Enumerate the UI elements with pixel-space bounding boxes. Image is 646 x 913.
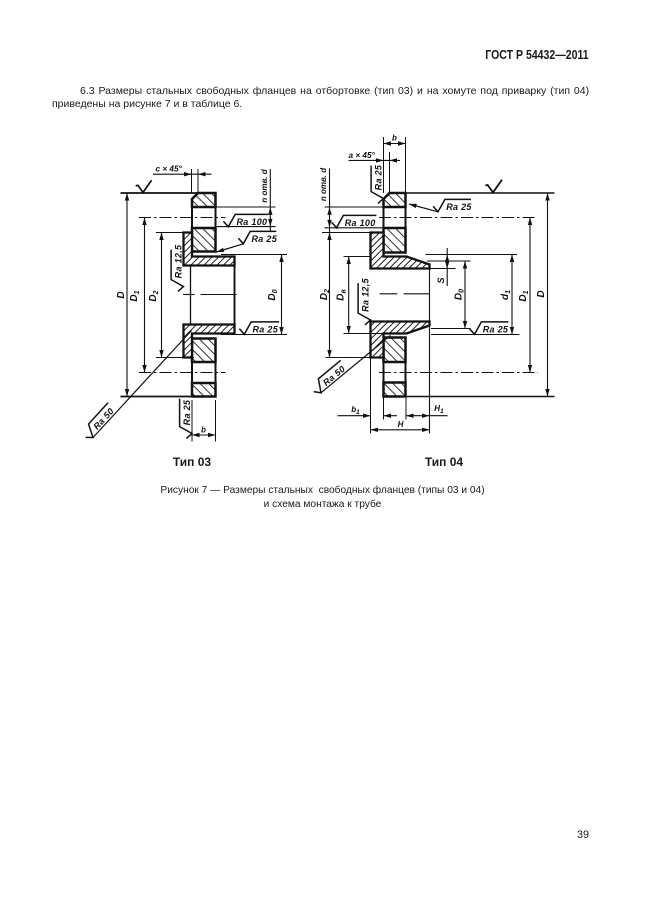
T04 ring left edge lower — [383, 334, 385, 397]
T04 D0 bottom extension — [431, 328, 471, 330]
T04 roughness Ra 100 — [332, 215, 377, 228]
T04 extension line weld end down — [429, 265, 431, 434]
svg-text:Ra 50: Ra 50 — [321, 364, 347, 388]
T03 ring upper section with chamfer — [192, 193, 216, 207]
svg-text:D1: D1 — [518, 290, 530, 301]
T03 roughness Ra 12.5 rotated — [171, 244, 184, 291]
svg-text:a × 45°: a × 45° — [349, 151, 376, 160]
paragraph 6.3 line 2 — [52, 98, 242, 110]
running header GOST number — [486, 48, 589, 62]
T03 ring left edge lower — [191, 325, 193, 397]
T03 bolt hole diameter dimension n otv d — [269, 169, 271, 232]
T03 flare bore corner line — [190, 266, 192, 324]
T04 extension line ring left face down — [383, 397, 385, 420]
T04 dimension D1 bolt circle — [529, 218, 531, 373]
T03 ring left edge upper — [191, 199, 193, 266]
svg-text:D2: D2 — [148, 290, 160, 301]
T04 bolt hole top extension — [325, 206, 384, 208]
T03 collar flare upper half — [184, 233, 235, 266]
paragraph 6.3 line 1 — [80, 85, 589, 97]
figure caption line 1 — [160, 485, 484, 496]
T04 ring right edge lower — [405, 338, 407, 397]
T04 machining symbol on top line — [485, 180, 502, 193]
svg-text:Ra 100: Ra 100 — [345, 218, 376, 228]
T03 lower bolt hole axis — [139, 372, 226, 374]
T04 Dv bottom extension — [344, 333, 384, 335]
T03 bottom rim extension line — [121, 396, 216, 398]
svg-text:d1: d1 — [500, 290, 512, 300]
svg-text:b: b — [392, 134, 397, 143]
T03 dimension D2 — [161, 233, 163, 358]
T04 roughness Ra 25 left rotated — [371, 164, 384, 203]
page number — [577, 829, 589, 841]
T04 roughness Ra 25 upper right with leader — [433, 199, 472, 212]
T04 d1 top extension — [426, 254, 518, 256]
svg-text:b1: b1 — [351, 405, 360, 416]
T04 ring left edge upper — [383, 199, 385, 257]
T04 ring right edge upper — [405, 193, 407, 253]
T04 roughness Ra 12.5 rotated — [358, 277, 371, 324]
T03 roughness Ra 25 upper with leader — [238, 231, 277, 244]
svg-text:Ra 50: Ra 50 — [91, 406, 116, 432]
T03 ring right edge upper — [215, 193, 217, 252]
T03 chamfer dimension c x 45 — [153, 173, 212, 175]
T04 weld collar lower half — [371, 322, 430, 358]
T03 top rim extension line — [121, 192, 216, 194]
T04 top rim extension line — [406, 192, 555, 194]
T03 roughness Ra 100 — [223, 214, 268, 227]
Type 04 flange drawing group — [309, 134, 554, 434]
T04 D2 bottom extension — [326, 357, 371, 359]
svg-text:D1: D1 — [129, 290, 141, 301]
svg-text:c × 45°: c × 45° — [156, 165, 183, 174]
T04 ring lower section — [384, 383, 406, 397]
T03 D2 bottom extension — [156, 357, 194, 359]
svg-text:Ra 12,5: Ra 12,5 — [174, 244, 184, 278]
T03 thickness dimension b — [191, 400, 193, 442]
T04 upper bolt hole axis — [379, 217, 537, 219]
T03 ring right edge lower — [215, 339, 217, 397]
T04 roughness Ra 50 with long leader — [321, 335, 391, 393]
svg-text:Ra 12,5: Ra 12,5 — [361, 277, 371, 311]
T03 machining symbol on top line — [136, 180, 152, 192]
T03 bolt hole top extension — [216, 206, 276, 208]
svg-text:Ra 25: Ra 25 — [253, 325, 279, 335]
T04 ring upper-inner section — [384, 228, 406, 253]
T04 ring lower-inner section — [384, 338, 406, 363]
caption Tip 03 — [173, 455, 211, 469]
T04 extension line collar left face down — [370, 358, 372, 434]
T04 roughness Ra 25 lower right — [470, 322, 509, 335]
svg-text:Ra 25: Ra 25 — [483, 325, 509, 335]
Type 03 flange drawing group — [81, 165, 287, 442]
T04 dimension D outer — [547, 193, 549, 397]
T04 bolt hole bottom extension — [325, 227, 384, 229]
T03 D0 top extension — [221, 254, 287, 256]
T03 dimension D1 — [144, 218, 146, 373]
T03 upper bolt hole axis — [139, 217, 226, 219]
T04 weld collar upper half — [371, 233, 430, 269]
T04 dimension b1 — [338, 415, 371, 417]
svg-text:Ra 100: Ra 100 — [237, 217, 268, 227]
T03 ring lower-inner section — [192, 339, 216, 363]
T04 wall thickness dimension S — [446, 248, 448, 286]
T03 axis centerline — [183, 294, 195, 296]
T03 ring upper-inner section — [192, 228, 216, 252]
figure caption line 2 — [264, 499, 382, 510]
T04 dimension H — [371, 429, 430, 431]
svg-text:n отв. d: n отв. d — [319, 167, 328, 201]
T03 dimension D — [126, 193, 128, 397]
caption Tip 04 — [425, 455, 463, 469]
T03 roughness Ra 25 lower — [239, 322, 279, 335]
T04 chamfer dimension a x 45 — [389, 152, 391, 193]
T04 extension line taper start down — [405, 398, 407, 420]
svg-text:D: D — [116, 291, 127, 298]
T03 ring lower section — [192, 383, 216, 397]
T04 Dv top extension — [344, 256, 371, 258]
T04 dimension Dv collar shoulder — [348, 257, 350, 334]
T04 ring upper section with chamfer — [384, 193, 406, 207]
T03 dimension D0 bore — [281, 255, 283, 335]
T04 lower bolt hole axis — [379, 372, 538, 374]
svg-text:H: H — [398, 420, 404, 429]
T04 bottom rim extension line — [406, 396, 555, 398]
T03 roughness Ra 25 bottom rotated — [180, 399, 193, 439]
T03 roughness Ra 50 with long leader — [93, 331, 192, 438]
T03 D2 top extension — [156, 232, 184, 234]
svg-text:D2: D2 — [319, 289, 331, 300]
svg-text:b: b — [201, 426, 206, 435]
svg-text:H1: H1 — [434, 404, 444, 415]
svg-text:Ra 25: Ra 25 — [446, 202, 472, 212]
T03 collar flare lower half — [184, 325, 235, 358]
svg-text:D0: D0 — [454, 289, 466, 300]
svg-text:Ra 25: Ra 25 — [374, 164, 384, 190]
svg-text:Dв: Dв — [335, 289, 347, 301]
T04 D2 top extension — [322, 232, 371, 234]
T04 dimension H1 — [406, 415, 448, 417]
T04 thickness dimension b — [383, 137, 385, 193]
T04 dimension d1 — [511, 255, 513, 335]
T04 bolt hole diameter and D2 dimension line — [329, 169, 331, 358]
T04 D0 top extension — [427, 260, 471, 262]
T03 pipe end face — [234, 257, 236, 334]
svg-text:Ra 25: Ra 25 — [182, 399, 192, 425]
T04 axis centerline — [380, 293, 398, 295]
T04 d1 bottom extension — [431, 334, 520, 336]
svg-text:n отв. d: n отв. d — [260, 168, 269, 202]
T04 dimension D0 weld end — [464, 261, 466, 329]
svg-text:S: S — [436, 277, 446, 283]
T03 D0 bottom extension — [221, 334, 287, 336]
svg-text:D: D — [536, 290, 547, 297]
svg-text:D0: D0 — [267, 289, 279, 300]
T03 bolt hole bottom extension — [216, 226, 276, 228]
svg-text:Ra 25: Ra 25 — [252, 234, 278, 244]
